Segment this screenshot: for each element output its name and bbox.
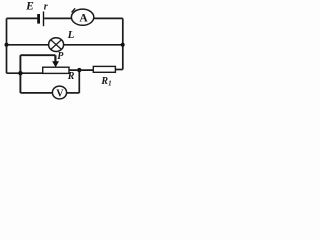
svg-text:P: P: [57, 51, 64, 62]
rheostat slider P arrow (shaft + head): [52, 55, 59, 67]
svg-text:R: R: [67, 71, 75, 82]
wire: voltmeter branch left: [20, 92, 52, 94]
wire: voltmeter right to riser corner: [67, 92, 80, 94]
node: junction on bottom-left horizontal: [18, 71, 22, 75]
wire: lamp branch right: [64, 44, 123, 46]
rheostat slider wire (horizontal): [20, 54, 55, 56]
wire: voltmeter riser up to R-R1 wire: [78, 70, 80, 93]
svg-text:A: A: [79, 13, 88, 25]
wire: rheostat R to resistor R1: [69, 69, 93, 71]
battery E positive plate (long thin): [43, 12, 44, 27]
svg-text:R1: R1: [100, 76, 111, 88]
lamp L: [49, 38, 64, 52]
svg-text:E: E: [25, 1, 34, 13]
svg-text:L: L: [67, 29, 75, 41]
ammeter needle tick: [72, 8, 76, 12]
wire: battery to ammeter: [44, 17, 71, 19]
wire: top-left segment (left corner to battery): [7, 17, 38, 19]
wire: left vertical: [6, 18, 8, 73]
node: left wire / lamp branch junction: [5, 43, 9, 47]
battery E negative plate (short thick): [37, 14, 40, 24]
wire: right elbow into R1: [115, 69, 122, 71]
wire: slider-to-voltmeter vertical: [19, 55, 21, 93]
voltmeter V: [52, 86, 66, 99]
wire: right vertical (top corner down to R1 level): [122, 18, 124, 69]
wire: ammeter to top-right corner: [94, 17, 123, 19]
ammeter A: [71, 9, 93, 25]
svg-text:V: V: [56, 88, 64, 99]
rheostat R body: [43, 67, 69, 73]
node: R-R1 wire / voltmeter riser junction: [77, 68, 81, 72]
svg-text:r: r: [44, 1, 48, 12]
wire: bottom-left horizontal to rheostat R left terminal: [7, 72, 43, 74]
node: right wire / lamp branch junction: [121, 43, 125, 47]
wire: lamp branch left: [7, 44, 50, 46]
resistor R1 body: [93, 66, 115, 72]
